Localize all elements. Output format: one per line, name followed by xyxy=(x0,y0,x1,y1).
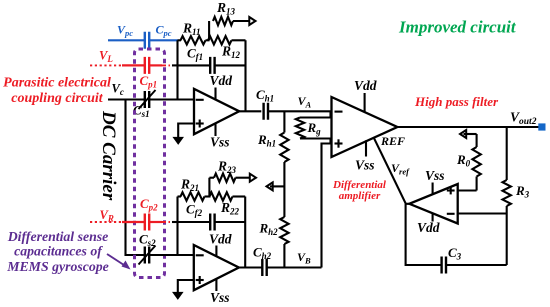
summing node vertical 2 xyxy=(176,197,178,256)
wire U4 non-inverting input xyxy=(458,189,477,191)
power Vss U4 xyxy=(432,183,434,195)
purple dashed box: differential sense capacitances xyxy=(135,49,165,278)
wire U4 output to C3 xyxy=(406,204,442,265)
capacitor Cpc xyxy=(145,32,149,49)
wire Cf2 right xyxy=(215,221,246,223)
svg-text:Parasitic electrical: Parasitic electrical xyxy=(3,76,111,91)
wire Cs2 to U2 inverting input xyxy=(149,254,194,256)
svg-text:Vss: Vss xyxy=(210,135,230,150)
wire Cpc to summing node (blue) xyxy=(149,39,177,41)
svg-text:Vdd: Vdd xyxy=(210,73,233,88)
wire U2 output xyxy=(239,266,262,268)
op-amp U3 differential amplifier xyxy=(332,97,398,157)
wire node X1 xyxy=(206,39,210,41)
power Vss U1 xyxy=(214,124,216,136)
wire Cf2 left xyxy=(178,221,211,223)
resistor R11 xyxy=(178,39,182,41)
wire U1 output xyxy=(239,110,261,112)
resistor Rh1 xyxy=(280,133,288,163)
wire Cp1 to summing node (red dash-dot) xyxy=(149,64,162,66)
off-page arrow left (Rh midpoint) xyxy=(270,185,284,187)
wire node X2 xyxy=(205,195,211,197)
wire feedback vertical 1 xyxy=(244,40,246,111)
capacitor Cp1 (red) xyxy=(145,57,149,74)
wire R22 to feedback vertical 2 xyxy=(233,195,246,197)
terminal Vout2 (blue square) xyxy=(538,123,545,130)
wire VL dotted line (red) xyxy=(90,64,122,66)
capacitor Ch2 xyxy=(262,259,266,276)
svg-text:amplifier: amplifier xyxy=(339,190,381,202)
wire R3 branch top xyxy=(506,127,508,180)
off-page arrow left (R0) xyxy=(460,130,466,138)
wire R3 bottom xyxy=(506,206,508,265)
power Vdd U2 xyxy=(215,246,217,257)
svg-text:High pass filter: High pass filter xyxy=(414,94,499,109)
wire Cp1 node black stub xyxy=(172,64,178,66)
op-amp U1 xyxy=(194,89,239,134)
svg-text:Vdd: Vdd xyxy=(354,78,377,93)
wire Cs1 to U1 inverting input xyxy=(149,98,194,100)
wire R12 to feedback vertical xyxy=(232,39,246,41)
wire Cp2 to summing node (red dash-dot) xyxy=(149,221,162,223)
svg-text:capacitances of: capacitances of xyxy=(14,244,103,259)
power Vss U3 xyxy=(365,140,367,156)
resistor R3 xyxy=(503,180,511,206)
resistor R13 xyxy=(213,17,233,25)
wire Ch1 to diff amp inverting input xyxy=(268,110,332,112)
wire Cf1 left xyxy=(178,64,211,66)
svg-text:Vdd: Vdd xyxy=(417,220,440,235)
resistor R22 xyxy=(210,192,233,200)
resistor Rh2 xyxy=(280,217,288,244)
svg-text:Differential sense: Differential sense xyxy=(7,229,109,244)
svg-text:REF: REF xyxy=(380,134,405,148)
svg-text:Improved circuit: Improved circuit xyxy=(398,18,517,37)
svg-text:Vss: Vss xyxy=(210,290,230,305)
wire Cf1 right xyxy=(215,64,246,66)
power Vdd U4 xyxy=(432,214,434,222)
wire R23 to off-page arrow xyxy=(236,177,251,179)
wire Ch2 to VB node xyxy=(267,266,322,268)
wire VA to Rh1 xyxy=(283,111,285,132)
capacitor Cp2 (red) xyxy=(145,214,149,231)
capacitor Cf1 xyxy=(210,57,214,74)
wire U4 inverting input xyxy=(458,212,507,214)
op-amp U2 xyxy=(194,245,239,290)
wire DC carrier vertical xyxy=(126,100,145,256)
summing node vertical 1 xyxy=(176,40,178,99)
resistor R21 xyxy=(178,195,182,197)
ground U2 non-inverting input xyxy=(178,280,194,295)
off-page arrow right (R23) xyxy=(250,174,256,182)
wire U3 output to Vout2 xyxy=(397,126,538,128)
svg-text:Vdd: Vdd xyxy=(209,232,232,247)
svg-text:coupling circuit: coupling circuit xyxy=(11,91,104,106)
wire Rh2 to VB xyxy=(283,244,285,268)
wire Vpc line (blue) xyxy=(108,39,145,41)
wire C3 to R3 xyxy=(446,264,507,266)
op-amp U4 (feedback integrator, points left) xyxy=(409,184,457,224)
wire Cp2 node black stub xyxy=(172,221,178,223)
capacitor Cs1 (variable sense cap) xyxy=(145,91,149,108)
resistor R12 xyxy=(208,36,232,44)
resistor Rg with bracket xyxy=(300,111,331,117)
svg-text:MEMS gyroscope: MEMS gyroscope xyxy=(6,259,109,274)
power Vss U2 xyxy=(215,279,217,291)
capacitor Ch1 xyxy=(264,103,268,120)
capacitor C3 xyxy=(442,257,446,274)
power Vdd U1 xyxy=(214,88,216,101)
wire Rh1 to Rh2 xyxy=(283,162,285,217)
wire feedback vertical 2 xyxy=(244,197,246,268)
wire Vc line xyxy=(108,98,145,100)
capacitor Cs2 (variable sense cap) xyxy=(145,247,149,264)
resistor R0 branch xyxy=(476,177,478,191)
svg-text:Vss: Vss xyxy=(355,158,375,173)
power Vdd U3 xyxy=(364,93,366,112)
svg-text:Vss: Vss xyxy=(425,168,445,183)
REF pin line xyxy=(373,137,405,203)
wire U3 non-inverting input from VB xyxy=(322,144,332,268)
annotation arrow (purple) xyxy=(107,254,127,267)
wire VR dotted line (red) xyxy=(90,221,122,223)
off-page arrow right (R13) xyxy=(249,17,255,25)
ground U1 non-inverting input xyxy=(178,124,194,141)
capacitor Cf2 xyxy=(210,214,214,231)
svg-text:DC Carrier: DC Carrier xyxy=(98,110,119,201)
wire R13 to off-page arrow xyxy=(233,20,250,22)
resistor R23 xyxy=(214,174,236,182)
